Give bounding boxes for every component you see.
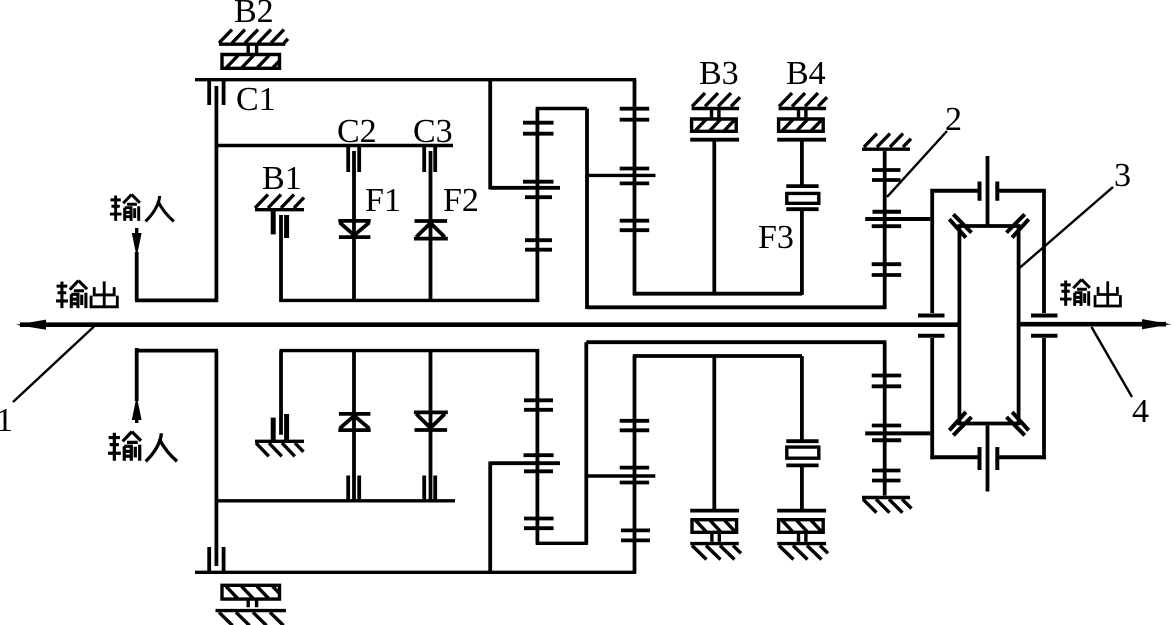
right ground (top) line	[862, 147, 910, 150]
brake B1 ground line	[255, 208, 304, 211]
svg-text:B4: B4	[786, 55, 826, 92]
planet 2 shaft	[633, 80, 637, 296]
connecting line below axis (mirror)	[280, 349, 540, 352]
leader line for node 4	[1092, 327, 1133, 397]
connecting line above axis (B1-F1-F2 to planet 1)	[280, 299, 540, 302]
freewheel F3 top bar	[786, 184, 818, 188]
label 输出 (output) right	[1060, 279, 1120, 305]
brake B4 block hatch (mirror)	[782, 520, 822, 532]
clutch C1 bars (mirror)	[209, 547, 223, 571]
brake B4 hatched block (mirror)	[779, 520, 824, 533]
brake B4 anchor bar (mirror)	[777, 509, 826, 513]
brake B4 block hatch	[782, 120, 822, 132]
planet 1 gear bars (upper pair, mirror)	[524, 400, 553, 410]
planet 2 gear bar below mesh line	[620, 181, 650, 185]
final drive right wall (top)	[1042, 191, 1046, 313]
final drive left wall (top)	[930, 191, 934, 313]
brake B2 hatched block (mirror)	[222, 585, 280, 599]
input arrow (bottom)	[132, 396, 142, 420]
svg-text:3: 3	[1114, 157, 1131, 194]
brake B1 plates	[273, 211, 286, 238]
right gear shaft bar below mesh (mirror)	[872, 438, 901, 442]
brake B4 hatched block	[779, 119, 824, 131]
long vertical between planet 1 and planet 2	[585, 109, 589, 310]
right gear shaft lower pair	[872, 264, 902, 275]
planet 2 shaft (mirror)	[633, 356, 637, 573]
freewheel F2 shaft (mirror)	[429, 351, 433, 500]
carrier joint marks bottom-left	[949, 412, 971, 435]
right gear shaft (mirror)	[883, 342, 887, 495]
freewheel F2 shaft	[429, 151, 433, 302]
shaft line 2 (mirror)	[216, 499, 455, 502]
planet 1 gear bar above ring line	[523, 180, 554, 184]
input shaft U (top): down, right, up to C1	[135, 252, 218, 300]
brake B2 ground line	[219, 43, 285, 46]
brake B1 plates (mirror)	[273, 414, 286, 441]
brake B4 stub posts (mirror)	[799, 532, 806, 542]
brake B4 ground hatch strokes (mirror)	[779, 546, 828, 560]
planet 1 sun shaft top link	[536, 107, 587, 110]
carrier joint marks bottom-right	[1007, 412, 1029, 435]
svg-text:F1: F1	[365, 182, 401, 219]
right gear shaft bar below mesh	[872, 224, 902, 228]
final drive top bracket	[930, 189, 1046, 193]
final drive bottom bracket	[930, 455, 1046, 459]
freewheel F2 (sprag, diode-up)	[414, 221, 448, 239]
brake B3 stub posts	[712, 110, 719, 118]
horizontal link below axis to right gear shaft (mirror)	[586, 340, 886, 344]
clutch C2 bars	[348, 147, 359, 172]
brake B2 stub posts	[248, 46, 256, 53]
svg-text:C2: C2	[337, 113, 377, 150]
long vertical between planets (mirror)	[584, 342, 588, 543]
main output shaft axis (left segment)	[20, 322, 958, 327]
final drive clutch stub (top)	[986, 156, 990, 226]
brake B3 block hatch	[695, 120, 735, 132]
freewheel F1 (mirror, diode-up)	[338, 414, 370, 430]
right gear shaft bar above mesh	[873, 210, 902, 214]
right gear shaft bar above mesh (mirror)	[872, 424, 901, 428]
final drive right wall (bottom)	[1042, 338, 1046, 459]
clutch C2 bars (mirror)	[348, 476, 359, 500]
clutch C3 bars	[424, 147, 435, 172]
freewheel F3 top bar (mirror)	[786, 439, 818, 443]
freewheel F2 (mirror, diode-down)	[414, 412, 448, 430]
brake B2 ground hatch strokes (mirror)	[219, 612, 284, 625]
brake B3 shaft	[712, 141, 716, 295]
right ground (top) hatch strokes	[864, 134, 911, 148]
brake B1 ground hatch strokes (mirror)	[256, 443, 304, 456]
brake B4 shaft lower (mirror)	[800, 467, 804, 511]
mesh line to planetary left wall (mirror)	[865, 431, 930, 435]
final drive clutch stub (bottom)	[986, 426, 990, 492]
brake B3 ground hatch strokes	[692, 93, 740, 107]
brake B4 ground hatch strokes	[779, 93, 827, 107]
brake B3 block hatch (mirror)	[696, 520, 736, 532]
vertical shaft to bottom line (mirror)	[214, 351, 218, 566]
planet 1 gear bar above ring line (mirror)	[524, 453, 554, 457]
carrier joint marks top-right	[1007, 214, 1029, 237]
leader line for node 2	[887, 131, 947, 197]
brake B3 shaft (mirror)	[712, 356, 716, 511]
svg-text:F2: F2	[443, 182, 479, 219]
svg-text:2: 2	[945, 101, 962, 138]
mesh line to planetary left wall	[865, 217, 930, 221]
mesh line to planet 2 (mirror)	[586, 474, 655, 477]
brake B2 block hatch	[226, 56, 279, 69]
planet 2 gear bar above mesh (mirror)	[620, 466, 650, 470]
svg-text:B1: B1	[262, 160, 302, 197]
brake B4 shaft upper	[800, 141, 804, 185]
brake B1 ground hatch strokes	[255, 195, 304, 209]
svg-text:F3: F3	[758, 219, 794, 256]
freewheel F1 shaft (mirror)	[352, 351, 356, 500]
planet 1 gear bar below ring line (mirror)	[524, 469, 553, 473]
right output arrowhead	[1142, 319, 1171, 329]
planet 1 gear bars (bottom pair, mirror)	[524, 519, 554, 529]
horizontal link planet 2 to B3/B4 shafts (mirror)	[633, 354, 802, 358]
planet 2 gear bars (top pair)	[620, 109, 650, 120]
leader line for node 3	[1020, 187, 1114, 268]
mesh line from that vertical to planet 2	[587, 174, 656, 177]
planet 1 shaft	[536, 109, 540, 303]
right ground (bottom) hatch strokes	[863, 499, 912, 513]
svg-text:C3: C3	[413, 113, 453, 150]
right ground (bottom) line	[862, 496, 910, 499]
brake B2 ground hatch strokes	[219, 30, 288, 44]
brake B2 ground line (mirror)	[216, 609, 287, 612]
right gear shaft top pair	[872, 170, 901, 180]
freewheel F1 (sprag, diode-down)	[338, 221, 370, 237]
brake B3 anchor bar (mirror)	[690, 509, 739, 513]
brake B1 ground line (mirror)	[255, 440, 304, 443]
planet 1 shaft (mirror)	[536, 351, 540, 543]
brake B2 block hatch (mirror)	[226, 586, 279, 599]
brake B1 shaft	[279, 215, 283, 302]
planet 1 gear bars (top pair)	[523, 123, 554, 134]
freewheel F3 shaft lower	[800, 211, 804, 295]
shaft line 2	[216, 144, 453, 147]
planet 1 sun shaft bottom link (mirror)	[536, 542, 588, 545]
brake B3 ground hatch strokes (mirror)	[692, 546, 741, 560]
planet 2 gear bars (lower pair)	[620, 221, 650, 231]
svg-text:4: 4	[1132, 393, 1149, 430]
vertical shaft from C1 down to input U	[214, 86, 218, 302]
final drive right gear bars at axis	[1031, 316, 1058, 336]
right gear shaft (node 2)	[883, 151, 887, 309]
brake B4 ground line	[779, 107, 827, 110]
brake B3 ground line	[692, 107, 740, 110]
final drive left gear bars at axis	[918, 316, 945, 336]
final drive carrier frame (inner rectangle, node 3)	[958, 225, 1021, 426]
planet 1 gear bar below ring line	[525, 195, 552, 199]
carrier joint marks top-left	[949, 214, 971, 237]
brake B3 ground line (mirror)	[690, 542, 739, 545]
horizontal mesh line planet 1 (mirror)	[490, 461, 560, 465]
freewheel F3 bottom bar (mirror)	[786, 463, 818, 467]
final drive left wall (bottom)	[930, 338, 934, 459]
vertical from line1 down (ring shaft of planet 1)	[488, 80, 492, 190]
input annotation 输入 (bottom)	[108, 432, 177, 462]
planet 2 gear bar below mesh (mirror)	[620, 481, 650, 485]
horizontal mesh line of planet 1 ring	[490, 186, 560, 190]
svg-text:B2: B2	[234, 0, 274, 30]
final drive clutch bars (bottom)	[980, 447, 998, 470]
brake B4 shaft via F3 (mirror)	[800, 356, 804, 442]
planet 2 gear bars (upper pair, mirror)	[620, 421, 650, 431]
leader line for node 1	[13, 327, 94, 403]
svg-text:B3: B3	[699, 55, 739, 92]
vertical to bottom line (ring shaft planet 1 mirror)	[488, 462, 492, 573]
label 输出 (output) left	[56, 281, 117, 309]
brake B3 hatched block	[692, 119, 737, 131]
brake B1 shaft (mirror)	[279, 351, 283, 435]
right gear shaft bottom pair (mirror)	[872, 471, 901, 481]
planet 2 gear bar above mesh line	[620, 167, 650, 171]
final drive clutch bars (top)	[980, 182, 998, 201]
horizontal link above axis (to right gear shaft)	[587, 305, 886, 309]
brake B2 hatched block	[222, 55, 280, 69]
brake B4 ground line (mirror)	[777, 542, 826, 545]
main output shaft axis (right segment)	[1021, 322, 1167, 327]
left output arrowhead	[16, 320, 46, 330]
freewheel F1 shaft	[352, 151, 356, 302]
brake B3 hatched block (mirror)	[692, 520, 737, 533]
svg-text:1: 1	[0, 402, 13, 439]
freewheel F3 box	[787, 193, 819, 203]
svg-text:C1: C1	[236, 81, 276, 118]
brake B4 anchor bar	[777, 138, 826, 142]
freewheel F3 box (mirror)	[787, 447, 819, 458]
freewheel F3 bottom bar	[786, 207, 818, 211]
horizontal link planet 2 to B3/B4 shafts	[633, 292, 802, 296]
input shaft U (bottom)	[135, 348, 218, 401]
right gear shaft upper pair (mirror)	[872, 376, 902, 387]
brake B3 anchor bar	[690, 138, 739, 142]
input annotation 输入 (top)	[110, 194, 174, 221]
brake B3 stub posts (mirror)	[712, 532, 719, 542]
top shaft line 1	[195, 78, 636, 81]
brake B2 stub posts (mirror)	[248, 599, 256, 607]
planet 1 gear bars (lower pair)	[525, 240, 552, 250]
planet 2 gear bars (bottom pair, mirror)	[621, 530, 650, 540]
clutch C1 bars	[209, 81, 223, 105]
bottom shaft line 1 (mirror)	[195, 571, 636, 574]
input arrow (top)	[135, 228, 138, 235]
brake B4 stub posts	[799, 110, 806, 118]
clutch C3 bars (mirror)	[424, 476, 435, 500]
